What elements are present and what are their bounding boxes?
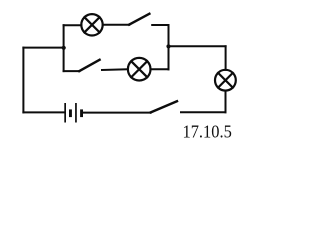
wire: switch S1 right contact (152, 24, 168, 26)
wire: top branch to switch S1 (103, 24, 130, 26)
wire: right vertical of inner loop (168, 25, 170, 69)
switch S2 lever (open) (79, 60, 99, 71)
wire: bottom rail battery to switch S3 (83, 112, 151, 114)
svg-text:17.10.5: 17.10.5 (183, 121, 232, 141)
wire: switch S2 right contact (102, 68, 128, 71)
battery B1 plate short - (69, 109, 72, 117)
battery B1 plate long + (cell 2) (75, 103, 77, 123)
battery B1 plate short - (cell 2) (80, 109, 83, 117)
wire: vertical branch stem through node A (63, 25, 65, 71)
lamp L2 (128, 58, 151, 81)
switch S1 lever (open) (129, 14, 149, 25)
lamp L1 (81, 14, 102, 35)
node A junction dot (62, 46, 66, 50)
switch S3 lever (open) (151, 101, 177, 112)
wire: bottom rail left segment (23, 111, 64, 113)
wire: middle branch left segment (64, 70, 80, 72)
wire: top branch left segment (64, 24, 82, 26)
wire: left vertical side (22, 48, 24, 113)
wire: bottom rail right segment (181, 111, 226, 113)
node B junction dot (166, 44, 170, 48)
wire: middle branch right segment (151, 68, 169, 70)
wire: top-left horizontal into node A (23, 47, 63, 49)
lamp L3 (215, 70, 236, 91)
battery B1 plate long + (64, 103, 66, 123)
wire: right side down to lamp L3 (225, 46, 227, 70)
wire: lamp L3 down to bottom rail (225, 91, 227, 113)
wire: node B horizontal to right (169, 45, 226, 47)
